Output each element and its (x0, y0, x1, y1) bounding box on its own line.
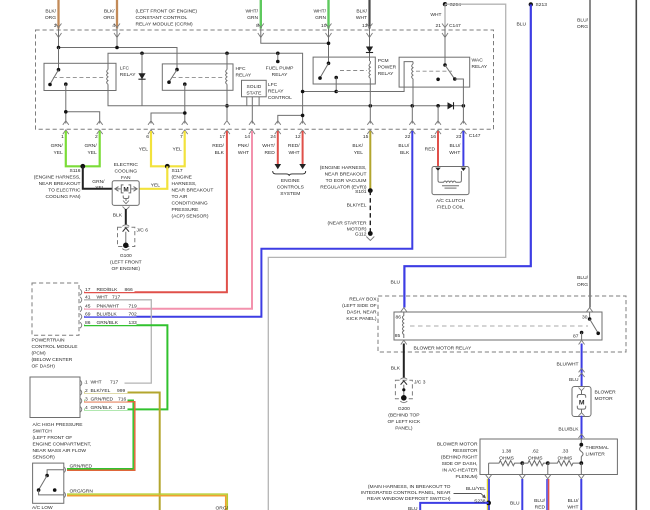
svg-text:(MAIN HARNESS, IN BREAKOUT TO: (MAIN HARNESS, IN BREAKOUT TO (368, 484, 451, 490)
svg-text:S117: S117 (172, 168, 183, 174)
label ELECTRIC COOLING FAN (114, 162, 139, 181)
wire solid state leg to pin 14 (251, 97, 253, 124)
svg-text:PNK/WHT: PNK/WHT (97, 303, 120, 309)
svg-text:BLU/: BLU/ (568, 498, 580, 504)
svg-text:CONSTANT CONTROL: CONSTANT CONTROL (136, 15, 188, 21)
svg-text:LFC: LFC (268, 82, 278, 88)
svg-text:OHMS: OHMS (558, 455, 573, 461)
svg-text:GRN/BLK: GRN/BLK (97, 320, 119, 326)
svg-text:FIELD COIL: FIELD COIL (437, 205, 464, 211)
svg-text:(LEFT FRONT OF: (LEFT FRONT OF (33, 435, 73, 441)
svg-text:WAC: WAC (472, 58, 484, 64)
svg-text:BLU/: BLU/ (398, 143, 410, 149)
svg-text:87: 87 (573, 333, 579, 339)
wire WHT/GRN pin 8 (top) (258, 0, 264, 38)
label BLU/BLK pin 22 (398, 143, 410, 156)
svg-text:1: 1 (85, 379, 88, 385)
wire LFC relay switch feed from pin 3 (58, 48, 60, 70)
svg-text:BLOWER: BLOWER (595, 390, 617, 396)
label A/C high row 3 GRN/RED 716 (85, 395, 128, 402)
svg-text:THERMAL: THERMAL (586, 445, 610, 451)
solid state module box (242, 80, 267, 97)
svg-text:BLK/: BLK/ (356, 9, 367, 15)
svg-text:A/C CLUTCH: A/C CLUTCH (436, 198, 466, 204)
svg-text:4: 4 (85, 405, 88, 411)
wire GRN/RED 716 from A/C high 3 to A/C low switch (green line) (67, 400, 133, 469)
svg-text:ELECTRIC: ELECTRIC (114, 162, 139, 168)
wire WHT 717 PCM 41 to A/C high pressure switch 1 (84, 300, 151, 383)
svg-text:86: 86 (396, 315, 402, 321)
svg-text:SYSTEM: SYSTEM (280, 191, 300, 197)
pin 17 exit chevrons and number (219, 121, 229, 140)
pin 24 exit chevrons and number (270, 121, 280, 140)
svg-text:BLU/BLK: BLU/BLK (97, 311, 118, 317)
pin 7 exit chevrons and number (180, 121, 188, 140)
svg-text:1: 1 (61, 134, 64, 140)
wire BLK/YEL existing circuit dashed to G112 (369, 191, 371, 232)
svg-text:WHT: WHT (449, 150, 460, 156)
ground G200 label (388, 406, 422, 432)
label WHT/RED pin 24 (262, 143, 275, 156)
pin A/C high 1 stub (80, 380, 82, 386)
svg-text:133: 133 (117, 405, 125, 411)
svg-text:CONTROL: CONTROL (268, 95, 292, 101)
svg-text:COOLING: COOLING (115, 169, 138, 175)
pin A/C low 2 stub (64, 492, 66, 498)
label BLOWER MOTOR (595, 390, 617, 403)
svg-text:719: 719 (129, 303, 137, 309)
svg-text:22: 22 (405, 134, 411, 140)
svg-text:14: 14 (245, 134, 251, 140)
pin 22 exit chevrons and number (405, 121, 415, 140)
svg-text:2: 2 (95, 134, 98, 140)
label ENGINE CONTROLS SYSTEM (277, 178, 305, 197)
svg-text:GRN/: GRN/ (84, 143, 97, 149)
svg-text:RED/: RED/ (212, 143, 224, 149)
svg-text:GRN: GRN (247, 15, 258, 21)
resistor R1 1.38 ohms (489, 449, 523, 466)
splice S116 (80, 164, 85, 169)
svg-text:TO AIR: TO AIR (172, 194, 188, 200)
svg-text:BLOWER MOTOR RELAY: BLOWER MOTOR RELAY (414, 346, 472, 352)
svg-text:PNK/: PNK/ (238, 143, 250, 149)
wire solid state leg to coil bus (246, 97, 248, 106)
svg-text:BLU: BLU (510, 501, 520, 507)
svg-text:BLK/: BLK/ (45, 9, 56, 15)
svg-text:GRN/: GRN/ (51, 143, 64, 149)
svg-text:BLU/: BLU/ (577, 275, 589, 281)
wire WHT branch from S294 running right and down page (268, 4, 505, 510)
svg-text:GRN: GRN (315, 15, 326, 21)
wire BLK from S116 to fan motor (83, 166, 112, 189)
ground G112 (355, 231, 374, 240)
wire BLK/ORG pin 3 (top) (56, 0, 62, 38)
svg-text:8: 8 (256, 23, 259, 29)
svg-text:ORG: ORG (45, 15, 56, 21)
svg-text:BLK/YEL: BLK/YEL (347, 203, 367, 209)
pin 23 exit chevrons and number (456, 121, 466, 140)
leader arrow to S238 (454, 494, 486, 499)
wire BLU/BLK from blower motor to resistor (581, 416, 583, 439)
pin PCM 86 stub (80, 322, 82, 328)
diode D3 on control bus (448, 102, 454, 109)
svg-text:WHT: WHT (567, 504, 578, 510)
svg-text:HFC: HFC (236, 66, 247, 72)
svg-text:BLK: BLK (391, 366, 401, 372)
label S116 harness note (34, 175, 81, 201)
svg-text:WHT/: WHT/ (246, 9, 259, 15)
svg-text:7: 7 (180, 134, 183, 140)
svg-text:(PCM): (PCM) (32, 350, 46, 356)
pin 6 exit chevrons and number (146, 121, 154, 140)
coil LFC relay (107, 53, 108, 106)
svg-text:KICK PANEL): KICK PANEL) (346, 316, 376, 322)
svg-text:A/C HIGH PRESSURE: A/C HIGH PRESSURE (33, 422, 84, 428)
wire PNK/WHT 719 CCRM 14 to PCM 45 (84, 131, 252, 309)
wire BLU/WHT from tap4 to page bottom (580, 479, 582, 510)
svg-text:MOTOR): MOTOR) (347, 226, 367, 232)
svg-text:HARNESS,: HARNESS, (172, 181, 197, 187)
svg-text:REAR WINDOW DEFROST SWITCH): REAR WINDOW DEFROST SWITCH) (367, 496, 451, 502)
svg-text:FUEL PUMP: FUEL PUMP (266, 66, 294, 72)
pin A/C low 1 stub (64, 467, 66, 473)
svg-text:BLK: BLK (113, 213, 123, 219)
svg-text:SIDE OF DASH,: SIDE OF DASH, (442, 461, 478, 467)
wire BLU from S238 to page bottom left (420, 503, 488, 510)
svg-text:S294: S294 (450, 2, 462, 8)
svg-text:RELAY: RELAY (378, 71, 394, 77)
wire RED CCRM 16 to clutch coil (437, 131, 439, 167)
label BLOWER MOTOR RESISTOR (437, 441, 478, 480)
node control bus across CCRM (108, 104, 466, 108)
pin 12 exit chevrons and number (295, 121, 305, 140)
svg-text:ENGINE: ENGINE (281, 178, 300, 184)
coil blower motor relay (402, 312, 403, 338)
svg-text:S101: S101 (355, 189, 367, 195)
label A/C high row 4 GRN/BLK 133 (85, 403, 128, 411)
wire ORG/GRN orange companion line (67, 496, 226, 510)
svg-text:2: 2 (85, 388, 88, 394)
label PCM POWER RELAY (378, 58, 397, 77)
wire BLU/WHT CCRM 23 to clutch coil (462, 131, 464, 167)
label BLU/ORG (at relay box) (577, 275, 589, 288)
label LFC RELAY (120, 66, 136, 79)
switch A/C low contacts (37, 470, 64, 495)
label WHT pin 21 (430, 12, 461, 29)
switch PCM power relay contacts (318, 62, 338, 80)
svg-text:BLOWER MOTOR: BLOWER MOTOR (437, 441, 478, 447)
label HFC RELAY (236, 66, 252, 79)
svg-text:24: 24 (270, 134, 276, 140)
svg-text:PLENUM): PLENUM) (455, 474, 477, 480)
pin 30 entry chevron (587, 308, 593, 312)
svg-text:45: 45 (85, 303, 91, 309)
svg-text:YEL: YEL (54, 150, 64, 156)
svg-text:YEL: YEL (151, 183, 161, 189)
motor M1 electric cooling fan (112, 181, 139, 206)
svg-text:(ENGINE HARNESS,: (ENGINE HARNESS, (320, 165, 367, 171)
pin PCM 41 stub (80, 297, 82, 303)
svg-text:WHT/: WHT/ (314, 9, 327, 15)
label RELAY BOX location (342, 297, 377, 323)
svg-text:S213: S213 (536, 2, 548, 8)
svg-text:10: 10 (321, 23, 327, 29)
svg-text:YEL: YEL (95, 185, 105, 191)
diode D1 inside CCRM (138, 53, 145, 106)
svg-text:716: 716 (118, 396, 126, 402)
svg-text:LIMITER: LIMITER (586, 451, 606, 457)
relay LFC outline (44, 63, 116, 90)
pin 1 exit chevrons and number (61, 121, 69, 140)
svg-text:ORG: ORG (103, 15, 114, 21)
svg-text:4: 4 (112, 23, 115, 29)
pin 15 exit chevrons and number (363, 121, 373, 140)
svg-text:BLU/BLK: BLU/BLK (558, 427, 579, 433)
label PNK/WHT pin 14 (238, 143, 250, 156)
svg-text:ENGINE COMPARTMENT,: ENGINE COMPARTMENT, (33, 441, 92, 447)
label SOLID STATE (246, 84, 262, 97)
label PCM row 69 BLU/BLK 702 (85, 310, 137, 318)
label THERMAL LIMITER (586, 445, 610, 458)
svg-text:(LEFT FRONT OF ENGINE): (LEFT FRONT OF ENGINE) (136, 9, 198, 15)
svg-text:BLK/: BLK/ (352, 143, 363, 149)
svg-text:GRN/RED: GRN/RED (70, 463, 93, 469)
wire stub to fuel pump relay (276, 53, 280, 63)
svg-text:IN A/C-HEATER: IN A/C-HEATER (442, 467, 478, 473)
svg-text:TO EGR VACUUM: TO EGR VACUUM (326, 178, 367, 184)
wire RED/BLK 866 CCRM 17 to PCM 17 (84, 131, 227, 292)
label NEAR STARTER MOTOR (328, 220, 367, 232)
label RED/WHT pin 12 (288, 143, 300, 156)
svg-text:SWITCH: SWITCH (33, 428, 53, 434)
svg-text:NEAR MASS AIR FLOW: NEAR MASS AIR FLOW (33, 448, 87, 454)
svg-text:NEAR BREAKOUT: NEAR BREAKOUT (172, 188, 214, 194)
wire pin 16 drop (437, 106, 439, 124)
label POWERTRAIN CONTROL MODULE (32, 337, 79, 369)
svg-text:BLU: BLU (569, 377, 579, 383)
label GRN/YEL pin 2 (84, 143, 97, 156)
wire BLK from relay 85 to J/C 3 (403, 344, 405, 378)
node bus from pins 3/4 inside CCRM (57, 29, 177, 70)
svg-text:RESISTOR: RESISTOR (453, 448, 478, 454)
svg-text:BLU/WHT: BLU/WHT (556, 362, 578, 368)
wire HFC switch output to pins 6/7 (151, 84, 187, 123)
label ORG/GRN at page bottom (216, 506, 229, 510)
label S117 harness note (172, 175, 214, 220)
label GRN/YEL pin 1 (51, 143, 64, 156)
wire pin 24 branch (278, 114, 305, 124)
svg-text:(BEHIND RIGHT: (BEHIND RIGHT (441, 454, 478, 460)
svg-text:(LEFT FRONT: (LEFT FRONT (110, 260, 142, 266)
wire BLK/YEL pin 15 to S101 (369, 131, 371, 191)
svg-text:G112: G112 (355, 232, 367, 238)
svg-text:717: 717 (112, 294, 120, 300)
svg-text:M: M (579, 399, 585, 406)
brace engine controls system (273, 171, 306, 176)
resistor R3 .33 ohms (546, 449, 583, 466)
svg-text:21: 21 (436, 23, 442, 29)
svg-text:SENSOR): SENSOR) (33, 454, 56, 460)
splice S294 and WHT wire to pin 21 (442, 2, 448, 38)
motor M2 blower motor (572, 387, 591, 417)
label FUEL PUMP RELAY (266, 66, 294, 79)
svg-text:BLK: BLK (400, 150, 410, 156)
svg-text:WHT: WHT (288, 150, 299, 156)
wire resistor tap 2 drop (519, 463, 525, 479)
svg-text:S238: S238 (474, 498, 486, 504)
inline connector on blower feed (579, 368, 585, 377)
svg-text:41: 41 (85, 294, 91, 300)
label WHT/GRN pin 8 (246, 9, 260, 30)
svg-text:BLU: BLU (390, 280, 400, 286)
svg-text:G200: G200 (398, 406, 410, 412)
splice S101 (355, 188, 373, 195)
svg-text:(BEHIND TOP: (BEHIND TOP (388, 412, 419, 418)
svg-text:C147: C147 (449, 23, 461, 29)
pin PCM 45 stub (80, 306, 82, 312)
svg-text:69: 69 (85, 311, 91, 317)
wire BLU/BLK 702 CCRM 22 to PCM 69 (84, 131, 412, 317)
svg-text:RELAY: RELAY (236, 73, 252, 79)
svg-text:NEAR BREAKOUT: NEAR BREAKOUT (325, 172, 367, 178)
svg-text:BLU/: BLU/ (450, 143, 462, 149)
label BLU/WHT tap4 (567, 498, 579, 510)
pin 2 exit chevrons and number (95, 121, 103, 140)
wire LFC switch output to pins 1/2 (64, 84, 100, 123)
coil HFC relay (225, 53, 229, 120)
svg-text:CONTROL MODULE: CONTROL MODULE (32, 344, 79, 350)
wire BLK/ORG pin 4 (top) (114, 0, 120, 38)
label A/C high row 2 BLK/YEL 999 (85, 387, 128, 395)
switch LFC relay contacts (48, 68, 67, 86)
wire ORG/GRN from A/C low 2 down page (green line) (67, 494, 227, 510)
wire BLU from S213 down to relay box (404, 2, 533, 307)
svg-text:POWERTRAIN: POWERTRAIN (32, 337, 66, 343)
svg-text:WHT: WHT (91, 379, 102, 385)
wire pin 23 drop (462, 106, 464, 124)
relay HFC outline (162, 64, 233, 90)
svg-text:.33: .33 (561, 449, 568, 455)
svg-text:(ACP) SENSOR): (ACP) SENSOR) (172, 214, 209, 220)
component A/C clutch field coil (432, 167, 469, 195)
wire pin 15 drop (369, 106, 371, 124)
svg-text:BLU/YEL: BLU/YEL (466, 486, 486, 492)
svg-text:BLK/: BLK/ (104, 9, 115, 15)
label PCM row 86 GRN/BLK 133 (85, 318, 137, 326)
pin A/C high 2 stub (80, 390, 82, 396)
label PCM row 45 PNK/WHT 719 (85, 302, 137, 310)
splice S117 (165, 164, 170, 169)
svg-text:WHT: WHT (97, 294, 108, 300)
pin 87 exit chevron (579, 340, 585, 344)
svg-text:RELAY BOX: RELAY BOX (349, 297, 377, 303)
label PCM row 41 WHT 717 (85, 294, 120, 300)
switch HFC relay contacts (167, 68, 186, 86)
svg-text:30: 30 (582, 315, 588, 321)
label BLK/ORG pin 4 (103, 9, 115, 30)
pin PCM 69 stub (80, 314, 82, 320)
entry chevron into resistor box (579, 434, 585, 438)
wire resistor tap 1 drop (486, 463, 492, 479)
svg-text:999: 999 (117, 388, 125, 394)
label BLU/WHT pin 23 (449, 143, 461, 156)
dashed actuator line WAC (416, 70, 452, 72)
wire BLK/YEL 999 from A/C high 2 down page (84, 393, 160, 510)
coil WAC relay (412, 62, 413, 106)
svg-text:12: 12 (295, 134, 301, 140)
dashed actuator line HFC (172, 76, 223, 78)
pin A/C high 4 stub (80, 406, 82, 412)
svg-text:M: M (123, 187, 128, 194)
svg-text:SOLID: SOLID (247, 84, 262, 90)
svg-text:WHT: WHT (430, 12, 441, 18)
blower motor resistor box (480, 439, 617, 475)
svg-text:S116: S116 (69, 168, 80, 174)
label S101 harness note (320, 165, 367, 191)
svg-text:YEL: YEL (354, 150, 364, 156)
svg-text:CONTROLS: CONTROLS (277, 185, 305, 191)
svg-text:J/C 6: J/C 6 (137, 228, 149, 234)
pin 85 exit chevron (401, 340, 407, 344)
svg-text:GRN/: GRN/ (92, 179, 105, 185)
junction connector J/C 3 (395, 378, 412, 403)
svg-text:13: 13 (362, 23, 368, 29)
svg-text:COOLING FAN): COOLING FAN) (45, 194, 80, 200)
wire BLU/YEL from tap1 to S238 (yellow companion) (486, 479, 488, 510)
svg-text:GRN/BLK: GRN/BLK (91, 405, 113, 411)
label A/C high row 1 WHT 717 (85, 378, 125, 385)
svg-text:RED/: RED/ (288, 143, 300, 149)
svg-text:(LEFT SIDE OF: (LEFT SIDE OF (342, 303, 376, 309)
svg-text:STATE: STATE (246, 91, 262, 97)
switch WAC relay contacts (436, 29, 463, 106)
svg-text:OHMS: OHMS (528, 455, 543, 461)
label MAIN HARNESS note (361, 484, 451, 502)
label LFC RELAY CONTROL (268, 82, 292, 101)
wire GRN/RED 716 red companion line (67, 402, 135, 471)
ground G100 label (110, 253, 142, 272)
dashed actuator line LFC (53, 76, 104, 78)
svg-text:ORG/: ORG/ (216, 506, 229, 510)
svg-text:C147: C147 (469, 133, 481, 139)
wire PCM relay output to WAC coil (336, 62, 413, 92)
svg-text:23: 23 (456, 134, 462, 140)
A/C high pressure switch box (30, 377, 80, 418)
wire BLU/RED from tap3 to page bottom (blue) (546, 479, 548, 510)
svg-text:RELAY MODULE (CCRM): RELAY MODULE (CCRM) (136, 22, 194, 28)
thermal limiter (579, 439, 583, 463)
wire YEL from S117 to fan motor (139, 166, 167, 189)
node coil supply bus inside CCRM (108, 52, 303, 124)
svg-text:A/C LOW: A/C LOW (32, 505, 53, 510)
svg-text:16: 16 (431, 134, 437, 140)
pin 86 entry chevron (401, 308, 407, 312)
svg-text:G100: G100 (120, 253, 132, 259)
wire YEL pins 6+7 to splice S117 (151, 131, 185, 166)
svg-text:85: 85 (395, 333, 401, 339)
label A/C HIGH PRESSURE SWITCH (33, 422, 92, 461)
wire cut at right page edge (635, 0, 637, 510)
junction connector J/C 6 (118, 225, 135, 250)
wire BLU/ORG down right side to relay pin 30 (589, 0, 591, 308)
coil PCM power relay (369, 61, 370, 106)
svg-text:POWER: POWER (378, 65, 397, 71)
relay box dashed outline (378, 296, 626, 352)
svg-text:RED: RED (264, 150, 275, 156)
splice S238 (486, 501, 491, 506)
svg-text:RED/BLK: RED/BLK (97, 287, 119, 293)
svg-text:GRN/RED: GRN/RED (91, 396, 114, 402)
